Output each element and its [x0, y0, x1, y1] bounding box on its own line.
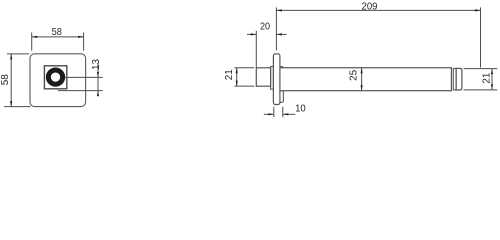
collar ring behind flange (right) — [280, 67, 283, 103]
left dim 58 ext lines — [7, 53, 29, 55]
inner square inlet boss — [44, 66, 66, 89]
spacer ring behind flange (left) — [271, 67, 274, 90]
dim 10 ext lines — [273, 107, 275, 117]
end cap — [456, 68, 462, 90]
dim 13 line — [97, 64, 99, 97]
square flange plate — [30, 54, 86, 107]
flange plate (side) — [273, 54, 280, 105]
svg-text:10: 10 — [295, 104, 306, 115]
dim 20 line left segment — [247, 33, 256, 35]
black ring (inlet opening) — [48, 70, 62, 84]
dim 209 / 20 shared ext line — [275, 7, 277, 50]
left dim 58 line — [10, 54, 12, 107]
dim 209 right ext line — [480, 7, 482, 67]
dim 21 left arrows — [236, 68, 238, 74]
inlet stub pipe — [256, 68, 270, 86]
dim 20 line right segment — [276, 33, 286, 35]
leader line upper (ring centre) — [65, 76, 103, 78]
end ring groove — [453, 69, 456, 90]
svg-text:209: 209 — [362, 1, 378, 12]
dim 21 left ext lines — [235, 67, 255, 69]
dim 209 arrows — [276, 9, 282, 11]
dim 21 right ext lines — [464, 68, 498, 70]
svg-text:58: 58 — [52, 27, 62, 38]
dim 209 line — [276, 9, 480, 11]
dim 21 left line — [236, 68, 238, 86]
dim 25 arrows — [361, 68, 363, 74]
svg-text:21: 21 — [482, 73, 493, 84]
svg-text:20: 20 — [260, 22, 271, 33]
dim 21 right arrows — [491, 69, 493, 75]
leader line lower — [58, 90, 103, 92]
dim 10 arrows (outside) — [268, 113, 274, 115]
svg-text:25: 25 — [348, 70, 359, 81]
top dim 58 ext lines — [31, 33, 33, 51]
svg-text:21: 21 — [224, 69, 235, 80]
dim 20 arrows (outside) — [251, 33, 256, 35]
dim 10 line left segment — [264, 113, 274, 115]
left dim 58 arrows — [10, 54, 12, 60]
dim 20 left ext line / stub left face — [255, 31, 257, 68]
dim 25 line — [361, 68, 363, 91]
top dim 58 line — [32, 36, 84, 38]
dim 13 arrows — [97, 72, 99, 78]
svg-text:13: 13 — [91, 59, 102, 70]
dim 21 right line — [491, 69, 493, 90]
top dim 58 arrows — [32, 36, 38, 38]
svg-text:58: 58 — [0, 74, 11, 85]
dim 10 line right segment — [283, 113, 295, 115]
arm tube — [280, 68, 452, 91]
